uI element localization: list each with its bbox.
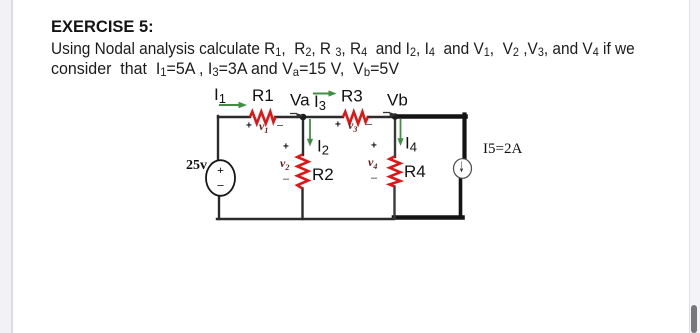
wire top segment (R3 to Vb) <box>368 116 397 118</box>
resistor R4 zigzag <box>390 157 401 187</box>
svg-text:25v: 25v <box>186 158 207 173</box>
wire thick bottom right <box>394 215 463 220</box>
wire Va vertical upper <box>302 117 304 155</box>
wire Vb vertical upper <box>394 117 396 157</box>
resistor R3 zigzag <box>343 112 368 124</box>
wire top middle segment (R1 to Va) <box>275 116 343 118</box>
svg-text:I3: I3 <box>314 92 326 113</box>
scrollbar thumb <box>691 305 697 333</box>
wire left vertical lower <box>218 196 220 220</box>
svg-text:–: – <box>366 119 373 131</box>
svg-text:I1: I1 <box>214 85 226 106</box>
svg-text:R1: R1 <box>252 86 274 105</box>
paragraph line 1 <box>51 39 635 59</box>
resistor R2 zigzag <box>297 155 308 189</box>
current source I5 circle <box>454 159 472 179</box>
current arrow I4 <box>400 119 402 140</box>
wire Va vertical lower <box>301 189 303 220</box>
voltage source V 25v ellipse <box>206 160 235 196</box>
wire top-left segment <box>218 116 250 118</box>
svg-text:–: – <box>217 178 225 192</box>
svg-text:+: + <box>283 142 289 153</box>
svg-text:v4: v4 <box>368 155 377 171</box>
current arrow I1 <box>219 104 240 106</box>
svg-text:R2: R2 <box>312 165 334 184</box>
svg-text:+: + <box>217 163 224 177</box>
svg-text:R4: R4 <box>404 162 426 181</box>
current arrow I3 <box>313 93 330 95</box>
svg-text:Va: Va <box>290 91 310 110</box>
svg-text:Vb: Vb <box>387 91 408 110</box>
svg-text:–: – <box>283 173 290 185</box>
svg-text:–: – <box>371 172 378 184</box>
title text <box>51 17 154 37</box>
resistor R1 zigzag <box>250 112 276 124</box>
left page margin strip <box>0 0 13 333</box>
svg-text:I2: I2 <box>317 137 329 158</box>
node Vb dot <box>392 113 399 120</box>
svg-text:I5=2A: I5=2A <box>483 141 522 157</box>
wire thick top right (Vb to corner) <box>397 114 466 119</box>
node Va dot <box>300 114 307 121</box>
right page margin strip <box>689 0 700 333</box>
svg-text:I4: I4 <box>405 134 417 155</box>
node Va pointer arrow <box>290 114 302 118</box>
wire left vertical upper <box>217 116 219 161</box>
current arrow I2 <box>309 119 311 140</box>
paragraph line 2 <box>51 59 399 79</box>
svg-text:–: – <box>277 120 284 132</box>
wire right vertical lower <box>459 178 463 218</box>
wire Vb vertical lower <box>393 187 395 219</box>
node Vb pointer arrow <box>383 113 395 117</box>
svg-text:+: + <box>246 121 252 132</box>
svg-text:+: + <box>335 120 341 131</box>
wire thick right vertical upper <box>462 115 466 160</box>
svg-text:v2: v2 <box>280 156 289 172</box>
wire bottom <box>217 218 394 220</box>
current source internal arrow <box>461 162 463 169</box>
svg-text:R3: R3 <box>341 87 363 106</box>
svg-text:+: + <box>371 141 377 152</box>
